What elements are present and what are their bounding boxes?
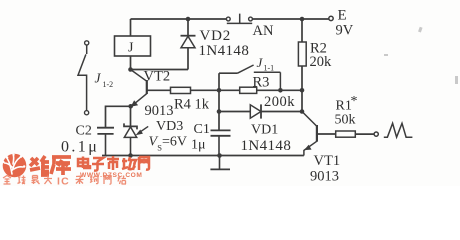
relay coil J <box>115 36 151 56</box>
svg-text:J: J <box>257 55 264 70</box>
wire R3 to R2 column <box>257 89 302 91</box>
wire J box bottom lead <box>130 56 132 70</box>
wire VD2 cathode lead <box>187 19 189 36</box>
diode VD2 <box>181 36 196 48</box>
junction J1-1 drop / R3 wire <box>278 88 283 93</box>
scan specks <box>384 27 458 84</box>
junction VT2 emitter / C2 / VD3 <box>128 104 133 109</box>
wire node to VD1 anode <box>219 111 250 113</box>
svg-text:R4 1k: R4 1k <box>174 97 210 113</box>
wire R4 to node <box>191 89 220 91</box>
svg-text:R1: R1 <box>336 99 352 114</box>
wire VD2 anode lead <box>187 48 189 70</box>
wire R1 to output terminal <box>355 133 374 135</box>
wire node column <box>218 73 220 130</box>
svg-text:1-1: 1-1 <box>264 64 275 73</box>
junction R4 / R3 / J1-1 / C1 column <box>217 88 222 93</box>
svg-text:=6V: =6V <box>162 135 187 150</box>
svg-text:1-2: 1-2 <box>103 80 114 89</box>
wire E rail to R2 <box>301 19 303 42</box>
svg-text:R3: R3 <box>253 75 270 91</box>
svg-text:VD1: VD1 <box>251 123 278 138</box>
watermark text WeiKu <box>30 156 71 175</box>
svg-text:1N4148: 1N4148 <box>199 43 250 59</box>
svg-text:9V: 9V <box>336 23 354 39</box>
wire emitter node to VD3 <box>130 106 132 126</box>
svg-text:J: J <box>95 71 102 86</box>
resistor R1 <box>336 131 356 137</box>
ground symbol <box>210 156 230 170</box>
svg-text:0.1μ: 0.1μ <box>61 139 99 156</box>
watermark text dianzishichangwang <box>78 156 149 171</box>
junction ground rail / C1 / ground symbol <box>217 153 222 158</box>
pushbutton AN <box>226 14 252 24</box>
resistor R2 <box>298 42 306 66</box>
junction VD1 anode wire / C1 column <box>217 109 222 114</box>
annotation arrow to VD3 <box>137 126 149 134</box>
wire VD1 cathode to collector node <box>261 111 302 113</box>
wire VT2 base to R4 <box>147 89 171 91</box>
svg-text:1μ: 1μ <box>191 138 206 153</box>
junction VD1 cathode / R2 column / VT1 collector <box>300 109 305 114</box>
svg-text:VD2: VD2 <box>200 28 232 44</box>
terminal output <box>374 132 378 136</box>
svg-text:IC: IC <box>57 176 70 187</box>
junction ground rail / VD3 <box>128 153 133 158</box>
svg-text:C2: C2 <box>76 124 92 139</box>
svg-text:E: E <box>338 8 347 24</box>
capacitor C2 <box>97 128 114 156</box>
svg-text:AN: AN <box>253 23 274 39</box>
wire node to R3 <box>219 89 240 91</box>
wire J bottom to VD2 anode <box>131 69 189 71</box>
svg-text:J: J <box>128 41 134 56</box>
resistor R4 <box>171 87 191 93</box>
watermark bottom slogan <box>3 176 126 185</box>
terminal E <box>329 16 333 20</box>
svg-text:9013: 9013 <box>310 169 339 185</box>
wire J box top drop <box>130 19 132 36</box>
wire R2 bottom to collector node <box>301 66 303 112</box>
wire VT1 base to R1 <box>317 133 336 135</box>
wire ground rail <box>102 155 304 157</box>
relay contact J1-1 <box>238 65 281 90</box>
wire top rail from J drop to AN left terminal <box>131 18 227 20</box>
svg-text:9013: 9013 <box>145 103 174 119</box>
wire node to switch J1-1 <box>219 72 238 74</box>
svg-text:VD3: VD3 <box>156 119 183 134</box>
svg-text:1N4148: 1N4148 <box>241 138 292 154</box>
junction top rail / VD2 cathode <box>186 17 191 22</box>
svg-text:50k: 50k <box>335 113 356 128</box>
wire emitter node to C2 <box>106 106 131 127</box>
zener diode VD3 <box>124 123 137 155</box>
svg-text:20k: 20k <box>310 54 333 70</box>
resistor R3 <box>240 87 257 93</box>
transistor VT2 <box>131 70 147 107</box>
junction top rail / R2 <box>300 17 305 22</box>
capacitor C1 <box>211 130 231 155</box>
transistor VT1 <box>302 112 317 156</box>
svg-text:*: * <box>351 94 358 109</box>
relay contact J1-2 <box>78 41 89 115</box>
waveform sawtooth output symbol <box>384 123 413 137</box>
junction J coil / VD2 anode / VT2 collector <box>128 67 133 72</box>
junction R3 wire / R2 column <box>300 88 305 93</box>
svg-text:C1: C1 <box>194 122 210 137</box>
svg-text:VT2: VT2 <box>144 69 171 85</box>
diode VD1 <box>250 104 261 118</box>
svg-text:200k: 200k <box>264 94 295 110</box>
watermark logo <box>2 154 26 178</box>
svg-text:VT1: VT1 <box>314 153 341 169</box>
wire AN right terminal to E terminal <box>252 18 329 20</box>
